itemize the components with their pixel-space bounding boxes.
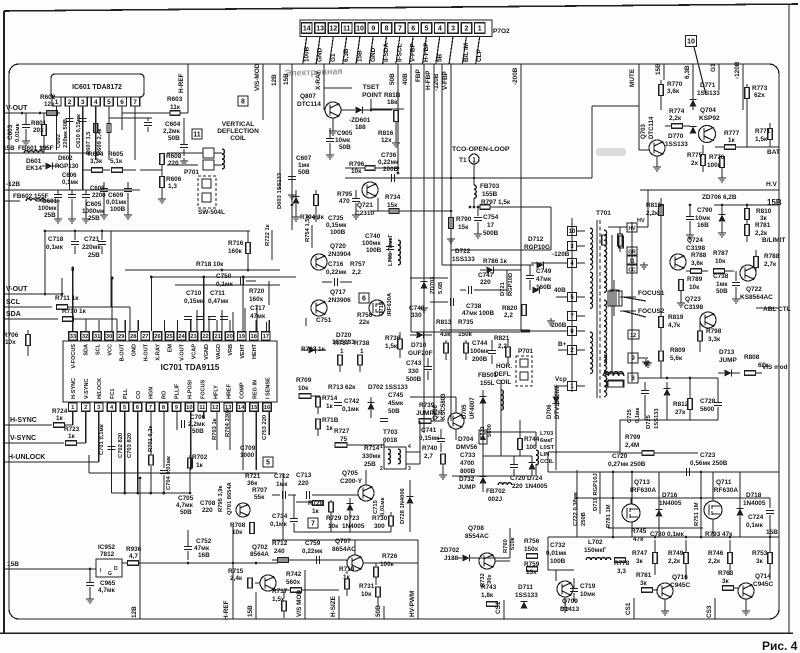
svg-text:18: 18 [251,334,258,340]
svg-text:0,1мк: 0,1мк [746,522,764,529]
svg-text:COIL: COIL [540,459,554,465]
svg-text:0,22мк: 0,22мк [302,548,323,555]
wire ZD703 row [423,278,425,281]
svg-text:B-OUT: B-OUT [119,343,125,361]
svg-text:330мк: 330мк [362,453,381,460]
svg-text:155L: 155L [480,380,495,387]
IC701 top pin 28 [129,332,138,341]
callout box 8 [238,96,248,106]
svg-text:1000: 1000 [240,452,255,459]
svg-text:3к: 3к [640,580,648,587]
svg-text:R743: R743 [481,584,497,591]
svg-text:R746: R746 [708,550,724,557]
svg-text:C965: C965 [100,580,116,587]
IC701 bottom pin 16 [263,403,272,412]
svg-text:5: 5 [107,99,111,106]
wire Vcp drop [555,386,557,470]
svg-text:H/LOCK: H/LOCK [97,378,103,399]
wire q706 emitter [455,429,457,440]
svg-text:SW-504L: SW-504L [198,209,225,216]
page right border line [788,4,790,633]
svg-text:1N4005: 1N4005 [743,500,766,507]
svg-text:R796: R796 [349,161,365,168]
connector P702 pin 8 [381,23,392,34]
svg-text:C738: C738 [466,303,482,310]
wire y472 rail [548,471,779,473]
IC701 bottom pin 7 [146,403,155,412]
svg-text:H-REF: H-REF [178,73,185,93]
svg-text:R737: R737 [334,340,350,347]
svg-text:C735: C735 [328,215,344,222]
wire x411 40B down [410,250,412,332]
svg-text:10к: 10к [715,258,726,265]
svg-text:R789: R789 [687,276,703,283]
IC701 top pin 21 [213,332,222,341]
svg-text:R708: R708 [230,522,246,529]
svg-text:D704: D704 [458,436,474,443]
svg-text:R744: R744 [524,436,540,443]
svg-text:EK14: EK14 [26,165,42,172]
svg-text:Q702: Q702 [252,544,268,551]
svg-text:R720: R720 [249,288,265,295]
wire VOUT branch [61,278,63,294]
svg-text:0,22мк: 0,22мк [326,269,347,276]
svg-text:L705 78мкГ: L705 78мкГ [388,234,394,266]
svg-text:160к: 160к [228,248,243,255]
wire x324 xray stub [323,102,325,110]
wire tap8 to right [638,376,664,378]
svg-text:H-SYNC: H-SYNC [10,417,37,424]
filter coil [604,372,623,374]
resistor R609 symbol [107,124,111,133]
svg-text:10к: 10к [689,284,700,291]
svg-text:HEHT: HEHT [252,343,258,359]
svg-text:CO: CO [136,390,142,399]
svg-text:D770: D770 [668,133,684,140]
svg-text:13x: 13x [526,569,537,576]
svg-text:12: 12 [630,333,636,339]
svg-text:3к: 3к [722,578,730,585]
svg-text:RO: RO [162,390,168,399]
tap box 11t [627,256,637,264]
svg-text:R778: R778 [614,560,630,567]
svg-text:H-POSI: H-POSI [188,380,194,399]
svg-text:1мк: 1мк [716,281,728,288]
svg-text:R820: R820 [502,305,518,312]
svg-text:C604: C604 [165,121,181,128]
svg-text:15B: 15B [283,73,290,85]
svg-text:C740: C740 [365,233,381,240]
svg-text:45мк: 45мк [388,400,404,407]
transformer inner resistor top [602,235,607,245]
svg-text:C723: C723 [700,452,716,459]
wire IC601 pin1 down [56,106,58,150]
svg-text:-120B: -120B [734,61,741,79]
svg-text:2,4к: 2,4к [230,575,243,582]
svg-text:R754 1,5к: R754 1,5к [305,215,311,242]
svg-text:C741: C741 [421,427,437,434]
focus arrows [623,297,646,301]
svg-text:220: 220 [480,279,491,286]
svg-text:220: 220 [512,483,523,490]
op-amp IC601 TDA8172 body [51,74,144,97]
svg-text:5600: 5600 [700,406,715,413]
svg-text:R795 3,9к: R795 3,9к [218,485,224,512]
svg-text:HOR.: HOR. [496,363,512,370]
svg-text:15B: 15B [766,529,778,536]
svg-text:R936: R936 [126,546,142,553]
IC701 top pin 23 [189,332,198,341]
IC701 bottom pin 6 [133,403,142,412]
svg-text:C718: C718 [48,236,64,243]
svg-text:10к: 10к [298,385,309,392]
svg-text:R757: R757 [350,261,366,268]
svg-text:1к: 1к [312,508,320,515]
svg-text:FB703: FB703 [480,183,500,190]
svg-text:1: 1 [340,348,344,355]
svg-text:C3198: C3198 [686,245,706,252]
connector P702 pin 6 [408,23,419,34]
svg-text:GND: GND [317,47,324,62]
svg-text:R713 62к: R713 62к [328,384,356,391]
svg-text:1к: 1к [728,137,736,144]
svg-text:V-FOCUS: V-FOCUS [71,344,77,369]
svg-text:5,6B: 5,6B [438,282,444,294]
svg-text:5,1к: 5,1к [110,158,123,165]
svg-text:C747: C747 [478,272,494,279]
svg-text:2: 2 [464,26,468,33]
svg-text:D711: D711 [518,584,533,591]
wire x292 down to C607 [291,190,293,230]
wire x363 q707 [363,562,376,564]
svg-text:12: 12 [212,405,218,411]
connector P702 pin 1 [474,23,485,34]
wire y590 r742 [308,589,339,591]
svg-text:100B: 100B [550,558,566,565]
svg-text:C744: C744 [472,340,488,347]
svg-text:ZD706 6,2B: ZD706 6,2B [702,194,737,201]
svg-text:C713: C713 [296,472,312,479]
wire Q708 row [479,557,510,559]
resistor R607 symbol [94,124,98,133]
svg-text:C751: C751 [316,317,332,324]
svg-text:IC601 TDA8172: IC601 TDA8172 [72,84,122,91]
svg-text:C945C: C945C [670,582,691,589]
svg-text:P701: P701 [518,348,533,355]
svg-text:21: 21 [214,334,221,340]
svg-text:ABL CTL: ABL CTL [763,306,791,313]
connector P702 strip [300,20,492,37]
tap box 12 [628,330,639,339]
wire x350 down [349,511,351,532]
svg-text:D732: D732 [459,476,475,483]
wire x249 r716 [248,231,250,240]
connector P702 pin 10 [355,23,366,34]
svg-text:27к: 27к [675,409,686,416]
svg-text:250B: 250B [581,512,587,526]
svg-text:0,1мк: 0,1мк [62,179,79,186]
svg-text:12: 12 [330,26,338,33]
svg-text:TCO-OPEN-LOOP: TCO-OPEN-LOOP [452,146,510,153]
svg-text:HV-PWM: HV-PWM [409,591,416,617]
wire D722 row [451,249,551,251]
wire C738 row2 [430,301,448,303]
svg-text:R729: R729 [326,515,342,522]
svg-text:C602: C602 [56,134,62,148]
svg-text:470: 470 [339,198,350,205]
tap box 1 [568,382,577,391]
tap box 5 [568,293,577,302]
svg-text:510к: 510к [510,537,516,550]
svg-text:5: 5 [266,460,270,467]
svg-text:R751 1M: R751 1M [694,502,700,526]
svg-text:1,3: 1,3 [168,183,177,190]
wire y118 row [109,117,152,119]
wire x520 r744 [519,420,521,432]
wire 15B rail [4,152,90,154]
svg-text:27: 27 [142,334,148,340]
wire IC601 pin2 down [69,106,71,190]
svg-text:R716: R716 [228,240,244,247]
callout box 5 [263,457,273,467]
svg-text:D712: D712 [528,236,544,243]
svg-text:H-FBP: H-FBP [423,42,430,62]
svg-text:C710: C710 [186,290,202,297]
svg-text:8654AC: 8654AC [332,546,356,553]
svg-text:C711: C711 [210,290,225,297]
wire output y498 rail [577,497,770,499]
svg-text:R781 1M: R781 1M [606,504,612,528]
svg-text:C753 220: C753 220 [262,415,268,440]
svg-text:Q704: Q704 [700,107,716,114]
svg-text:C716: C716 [328,261,344,268]
svg-text:R821: R821 [494,335,510,342]
svg-text:C708: C708 [200,500,216,507]
svg-text:C703 820: C703 820 [127,433,133,458]
svg-text:R774: R774 [669,108,685,115]
svg-text:1к: 1к [326,403,334,410]
svg-text:C712: C712 [274,473,290,480]
IC601 pin 6 [118,97,127,106]
svg-text:8: 8 [241,99,245,106]
svg-text:0,1мк: 0,1мк [46,244,64,251]
svg-text:HV: HV [629,226,637,232]
svg-text:Q705: Q705 [342,470,358,477]
svg-text:B/L IM: B/L IM [463,43,470,62]
svg-text:100B: 100B [366,247,382,254]
svg-text:31: 31 [94,334,101,340]
svg-text:GND: GND [131,344,137,356]
diode D732b [533,287,540,294]
svg-text:15: 15 [251,405,258,411]
svg-text:R812: R812 [673,401,689,408]
svg-text:22к: 22к [359,319,370,326]
svg-text:R726: R726 [382,553,398,560]
svg-text:FB501: FB501 [478,372,498,379]
svg-text:H-OUT: H-OUT [144,343,150,361]
svg-text:C734: C734 [272,513,288,520]
svg-text:4,7к: 4,7к [668,322,681,329]
svg-text:R702: R702 [192,454,208,461]
wire x331 down [330,512,332,532]
svg-text:11: 11 [343,26,351,33]
svg-text:C606: C606 [62,172,77,179]
svg-text:Q724: Q724 [687,237,703,244]
svg-text:0,15мк: 0,15мк [184,298,205,305]
callout box 7 [308,518,318,528]
svg-text:R715: R715 [228,568,244,575]
svg-text:0,47мк: 0,47мк [208,298,229,305]
svg-text:T701: T701 [596,210,611,217]
svg-text:V-OUT: V-OUT [6,105,28,112]
wire x418 vert [417,430,419,560]
svg-text:14: 14 [238,405,245,411]
svg-text:10к: 10к [351,168,362,175]
svg-text:1N4005: 1N4005 [342,523,365,530]
wire y456 row [483,455,532,457]
connector P702 pin 7 [395,23,406,34]
svg-text:10к: 10к [328,523,339,530]
svg-text:R607 1,5: R607 1,5 [86,131,92,155]
svg-text:55к: 55к [254,494,265,501]
svg-text:SDA: SDA [6,311,21,318]
wire IC601 pin3 down [82,106,84,190]
svg-text:155B: 155B [482,191,498,198]
wire left mid verticals [196,310,198,331]
svg-text:B+: B+ [558,341,567,348]
svg-text:C759: C759 [305,540,321,547]
wire T703 links [383,442,385,447]
wire q709 down [564,597,566,605]
svg-text:R714: R714 [364,445,380,452]
svg-text:R709: R709 [296,377,312,384]
svg-text:1к: 1к [326,425,334,432]
svg-text:R760: R760 [503,539,509,553]
IC701 bottom pin 4 [107,403,116,412]
svg-text:2,2к: 2,2к [669,115,682,122]
IC701 bottom pin 9 [172,403,181,412]
svg-text:G1: G1 [710,63,717,72]
svg-text:R786 1к: R786 1к [483,258,508,265]
wire 15B to right [160,562,278,564]
wires comb above IC701 [164,322,166,331]
wire bus A [292,229,390,231]
wire x440 vertical [439,64,441,330]
IC701 top pin 25 [165,332,174,341]
IC701 top pin 22 [201,332,210,341]
svg-text:TSET: TSET [363,84,380,91]
wire left col x62 [61,278,63,294]
svg-text:H-SYNC: H-SYNC [71,378,77,399]
svg-text:17: 17 [487,222,495,229]
svg-text:Q807: Q807 [300,93,316,100]
svg-text:Q721: Q721 [357,202,373,209]
wire x410 d728 [409,480,411,497]
svg-text:II-SDA: II-SDA [383,42,390,62]
svg-text:Q716: Q716 [672,574,688,581]
svg-text:C705: C705 [178,495,194,502]
svg-text:15B: 15B [655,63,662,75]
svg-text:50B: 50B [339,144,351,151]
svg-text:IRF630A: IRF630A [712,487,738,494]
svg-text:C721: C721 [84,236,100,243]
svg-text:COIL: COIL [230,135,246,142]
svg-text:4700: 4700 [460,460,475,467]
svg-text:Q713: Q713 [634,479,650,486]
svg-text:EM: EM [168,344,174,353]
transformer secondary winding [604,230,607,292]
wire center bus y332 [280,331,302,333]
IC601 pin 2 [65,97,74,106]
tap box 2 [568,346,577,355]
resistor R608 [160,154,165,165]
wire q705 net [365,470,367,485]
svg-text:50B: 50B [192,428,204,435]
svg-text:GR: GR [628,250,636,256]
svg-text:CS1: CS1 [625,602,632,615]
IC601 pin 7 [131,97,140,106]
svg-text:V-FBP: V-FBP [442,70,449,90]
svg-text:150x: 150x [524,546,539,553]
svg-text:29: 29 [118,334,125,340]
svg-text:C738: C738 [713,273,729,280]
svg-text:V/S MOD: V/S MOD [296,590,303,617]
svg-text:1,5x: 1,5x [272,596,285,603]
svg-text:17: 17 [263,334,269,340]
svg-text:2,7: 2,7 [424,453,433,460]
svg-text:11к: 11к [170,104,181,111]
svg-text:R718 10к: R718 10к [196,261,224,268]
svg-text:1N4005: 1N4005 [659,500,682,507]
svg-text:20x: 20x [33,127,44,134]
svg-text:50B: 50B [389,73,396,85]
wire x483 column [482,390,484,476]
svg-text:R763: R763 [718,570,734,577]
svg-text:6,3B: 6,3B [684,65,691,79]
wire x270 drop [268,281,270,305]
svg-text:Q703: Q703 [640,123,647,139]
svg-text:220: 220 [202,507,213,514]
svg-text:DEFLECTION: DEFLECTION [217,128,259,135]
svg-text:7: 7 [133,99,137,106]
svg-text:1SS133: 1SS133 [654,408,660,429]
IC701 bottom pin 14 [237,403,246,412]
transformer inner wire [611,235,613,373]
svg-text:100мк: 100мк [470,348,489,355]
svg-text:L702: L702 [588,539,603,546]
svg-text:HREF: HREF [226,383,232,399]
svg-text:C719: C719 [580,583,596,590]
svg-text:Q711: Q711 [716,479,732,486]
diode D706 symbol [553,397,560,404]
svg-text:11: 11 [629,259,635,265]
svg-text:2N3906: 2N3906 [328,297,351,304]
svg-text:1SS133: 1SS133 [515,592,538,599]
svg-text:HV: HV [637,218,645,224]
svg-text:D723: D723 [344,515,360,522]
wire rails left mid [61,293,63,295]
svg-text:R810: R810 [756,208,772,215]
svg-text:R608: R608 [166,153,182,160]
wires into IC701 top pins [72,320,74,331]
svg-text:4,7мк: 4,7мк [176,502,194,509]
svg-text:25B: 25B [88,252,100,259]
svg-text:3: 3 [81,99,85,106]
wire V-OUT rail [4,112,60,114]
wire to coil [167,152,203,154]
svg-text:D725: D725 [646,414,652,429]
svg-text:R788: R788 [764,253,780,260]
